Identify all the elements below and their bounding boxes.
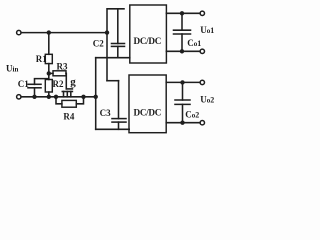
wire: top input rail	[21, 32, 107, 34]
wire: Co1 top lead	[181, 13, 183, 30]
wire: C3 bottom lead	[118, 122, 120, 129]
wire: R4 left loop	[56, 97, 62, 104]
capacitor C2 top plate	[112, 43, 125, 45]
wire: Co1 bottom lead	[181, 34, 183, 51]
wire: box1 bottom output	[166, 50, 200, 52]
wire: box1 top output	[166, 12, 200, 14]
svg-text:R3: R3	[57, 61, 68, 71]
node: R4 right junction	[81, 95, 85, 99]
node: R4 left junction	[54, 95, 58, 99]
wire: R3 right lead down to transistor gate	[65, 73, 67, 89]
wire: bottom input rail	[21, 96, 96, 98]
node B: top rail right end junction	[105, 30, 109, 34]
transistor Q channel tick 2	[66, 92, 68, 97]
output terminal Uo1 +	[200, 11, 204, 15]
DC/DC converter U1 box	[130, 5, 167, 63]
resistor R4	[62, 100, 76, 107]
wire: box2 left pin wire	[96, 128, 130, 130]
capacitor Co2 top plate	[175, 99, 190, 101]
wire: elbow over to C3 top lead	[107, 80, 119, 82]
node: C1 bottom junction	[32, 95, 36, 99]
capacitor C3 top plate	[112, 118, 126, 120]
input terminal - (bottom left)	[17, 95, 21, 99]
svg-text:Uo1: Uo1	[200, 25, 214, 35]
resistor R3	[53, 71, 66, 76]
svg-text:R2: R2	[53, 79, 64, 89]
svg-text:Co2: Co2	[185, 109, 199, 119]
capacitor C1 bottom plate	[28, 87, 41, 89]
capacitor Co1 top plate	[174, 29, 191, 31]
node: Co2 top junction	[180, 80, 184, 84]
svg-text:Co1: Co1	[187, 38, 201, 48]
wire: node B up and over (C2 top feed)	[107, 9, 124, 33]
svg-text:C3: C3	[100, 108, 111, 118]
node: R2 bottom junction	[47, 95, 51, 99]
wire: R3 left lead	[49, 72, 53, 74]
svg-text:R1: R1	[36, 54, 47, 64]
wire: C2 bottom lead	[117, 46, 119, 57]
svg-text:C1: C1	[18, 79, 29, 89]
node: R1 top junction	[47, 30, 51, 34]
output terminal Uo1 -	[200, 49, 204, 53]
svg-text:C2: C2	[93, 39, 104, 49]
wire: box2 bottom output	[166, 122, 200, 124]
svg-text:Uin: Uin	[6, 64, 18, 74]
wire: R2 bottom lead	[48, 92, 50, 97]
DC/DC converter U2 box	[129, 75, 166, 133]
capacitor C2 bottom plate	[112, 45, 125, 47]
transistor Q channel tick 1	[63, 92, 65, 97]
wire: node B vertical down to C3 branch elbow	[106, 33, 108, 81]
wire: C1 bottom lead	[34, 88, 36, 97]
input terminal + (top left)	[17, 30, 21, 34]
svg-text:Uo2: Uo2	[200, 94, 214, 104]
wire: R1 bottom lead to node N1	[48, 64, 50, 80]
node: Co1 bottom junction	[180, 49, 184, 53]
svg-text:DC/DC: DC/DC	[134, 36, 162, 46]
wire: R4 right loop	[76, 97, 83, 104]
output terminal Uo2 +	[200, 80, 204, 84]
wire: box1 left pin wire	[96, 57, 130, 59]
wire: left bus vertical	[95, 58, 97, 130]
transistor Q gate bar	[66, 88, 72, 90]
node: bottom rail right end junction	[94, 95, 98, 99]
wire: box2 top output	[166, 81, 200, 83]
node N1: R1/R2/R3 junction	[47, 71, 51, 75]
wire: Co2 top lead	[182, 82, 184, 100]
capacitor C3 bottom plate	[112, 121, 126, 123]
wire: C2 top lead	[117, 9, 119, 44]
transistor Q channel tick 3	[70, 92, 72, 97]
capacitor Co2 bottom plate	[175, 103, 190, 105]
node: Co2 bottom junction	[180, 121, 184, 125]
wire: Co2 bottom lead	[182, 104, 184, 122]
resistor R1	[45, 54, 52, 63]
svg-text:DC/DC: DC/DC	[134, 108, 162, 118]
wire: R1 top lead	[48, 33, 50, 55]
output terminal Uo2 -	[200, 121, 204, 125]
resistor R2	[45, 80, 52, 93]
transistor Q channel bar	[62, 91, 72, 93]
capacitor Co1 bottom plate	[174, 33, 191, 35]
svg-text:g: g	[70, 76, 76, 88]
svg-text:R4: R4	[63, 111, 74, 121]
capacitor C1 top plate	[28, 83, 41, 85]
node: Co1 top junction	[180, 11, 184, 15]
wire: C3 top lead	[118, 81, 120, 119]
wire: C1 top connector	[35, 79, 49, 85]
